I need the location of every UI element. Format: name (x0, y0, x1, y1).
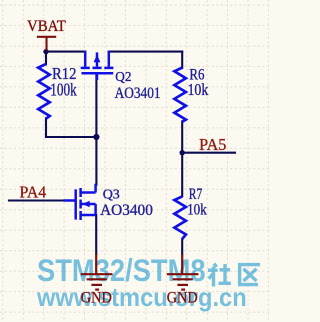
svg-text:VBAT: VBAT (27, 18, 66, 35)
svg-text:PA5: PA5 (199, 135, 226, 154)
svg-text:AO3400: AO3400 (100, 202, 153, 219)
svg-text:100k: 100k (50, 80, 77, 100)
svg-text:Q2: Q2 (115, 70, 131, 85)
svg-text:AO3401: AO3401 (115, 85, 161, 102)
svg-text:GND: GND (81, 290, 112, 307)
svg-text:R7: R7 (189, 186, 203, 203)
svg-text:www.stmcu.org.cn: www.stmcu.org.cn (36, 282, 247, 312)
svg-text:Q3: Q3 (103, 188, 120, 203)
svg-text:10k: 10k (188, 80, 209, 99)
svg-text:PA4: PA4 (20, 182, 47, 201)
svg-text:GND: GND (167, 290, 198, 307)
svg-text:10k: 10k (187, 202, 207, 219)
